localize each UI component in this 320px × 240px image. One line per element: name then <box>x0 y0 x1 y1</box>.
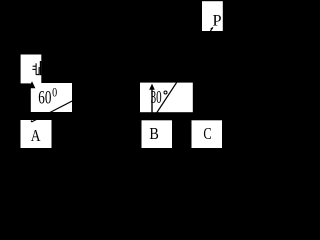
svg-text:P: P <box>213 10 222 29</box>
svg-text:60: 60 <box>38 86 51 108</box>
svg-text:30: 30 <box>151 89 162 108</box>
svg-text:0: 0 <box>52 85 57 99</box>
svg-text:A: A <box>31 128 41 145</box>
svg-text:B: B <box>149 125 158 144</box>
svg-text:C: C <box>203 125 211 143</box>
